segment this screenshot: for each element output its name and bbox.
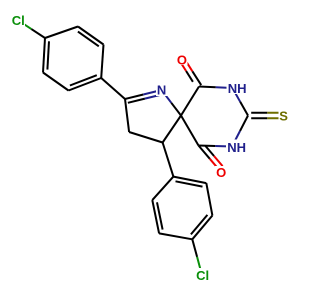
bond CA1-Cl1 (C-Cl top-left) <box>31 29 45 38</box>
svg-text:S: S <box>279 109 288 124</box>
NH(1) label backing <box>227 81 248 94</box>
pyrimidine bond C2-N3H <box>240 116 248 132</box>
thione double bond C2=S <box>251 117 267 119</box>
S label backing <box>279 110 289 122</box>
pyrimidine bond N3H-C4 <box>215 145 232 148</box>
benzene A bond CA5-CA6 <box>43 73 69 91</box>
svg-text:Cl: Cl <box>12 13 25 28</box>
pyrimidine bond N1H-C2 <box>233 88 241 102</box>
NH(3) label backing <box>226 140 247 153</box>
benzene A bond CA3-CA4 <box>101 45 103 79</box>
benzene B double bond CB5=CB6 <box>152 200 159 233</box>
benzene B double bond CB1=CB2 <box>173 177 206 184</box>
pyrimidine bond C5(spiro)-C6 <box>181 87 199 116</box>
pyrroline double bond C2=N <box>125 95 143 100</box>
bond phenylA(ipso)-C2 pyrroline <box>101 78 125 99</box>
pyrroline bond C4-C3 <box>129 132 163 143</box>
benzene A double bond CA4=CA5 <box>69 78 102 91</box>
pyrroline bond C3-C2 <box>125 99 129 132</box>
svg-text:NH: NH <box>227 140 246 155</box>
benzene A double bond CA6=CA1 <box>43 38 45 73</box>
carbonyl double bond C4=O (bottom) <box>199 146 210 159</box>
Cl2 label backing <box>196 268 211 282</box>
carbonyl double bond C6=O (top) <box>192 71 201 85</box>
benzene A double bond CA2=CA3 <box>78 27 104 45</box>
N pyrroline label backing <box>156 84 168 97</box>
bond C4-phenylB(ipso) <box>163 143 174 177</box>
benzene A bond CA1-CA2 <box>45 27 78 39</box>
svg-text:NH: NH <box>228 81 247 96</box>
bond CB4-Cl2 (C-Cl bottom) <box>192 239 197 257</box>
svg-text:Cl: Cl <box>196 268 209 283</box>
O top label backing <box>176 53 188 66</box>
benzene B bond CB6-CB1 <box>152 177 173 201</box>
benzene B bond CB2-CB3 <box>206 183 212 215</box>
pyrroline bond C5-C4 <box>163 116 181 143</box>
O bottom label backing <box>215 166 227 178</box>
pyrimidine bond C4-C5(spiro) <box>181 116 199 146</box>
benzene B bond CB4-CB5 <box>159 233 192 239</box>
svg-text:N: N <box>157 83 166 98</box>
svg-text:O: O <box>177 52 187 67</box>
benzene B double bond CB3=CB4 <box>192 216 212 240</box>
pyrroline bond N-C5(spiro) <box>162 90 172 103</box>
Cl1 label backing <box>11 14 25 27</box>
svg-text:O: O <box>216 165 226 180</box>
pyrimidine bond C6-N1H <box>199 86 216 89</box>
